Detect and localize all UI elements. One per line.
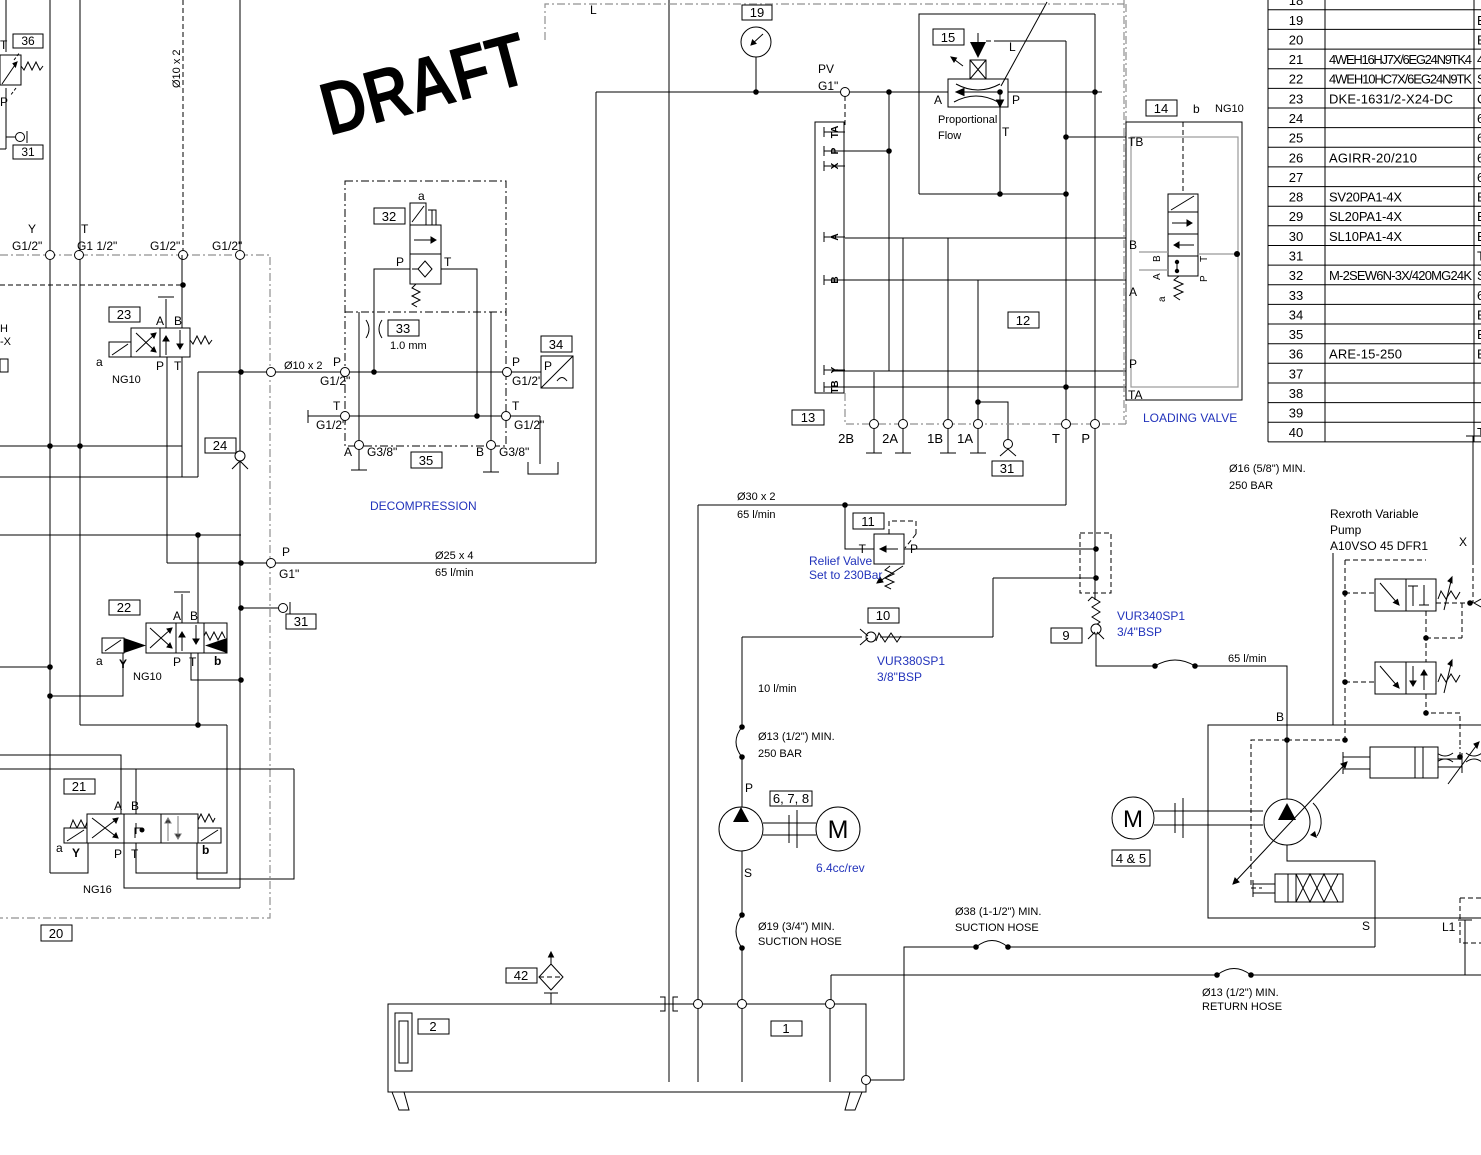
svg-text:34: 34	[549, 337, 563, 352]
label box 4,5	[1112, 850, 1150, 866]
svg-text:M: M	[1123, 806, 1143, 833]
label box 12	[1008, 312, 1039, 328]
svg-text:1A: 1A	[957, 431, 973, 446]
label box 13	[792, 410, 824, 425]
svg-text:31: 31	[21, 145, 35, 159]
svg-text:Rexroth Variable: Rexroth Variable	[1330, 507, 1419, 521]
svg-text:SV20PA1-4X: SV20PA1-4X	[1329, 190, 1402, 205]
svg-text:E: E	[1477, 190, 1481, 205]
svg-text:Ø38 (1-1/2") MIN.: Ø38 (1-1/2") MIN.	[955, 906, 1041, 918]
wire riser x=596	[595, 92, 597, 563]
port P right	[503, 368, 512, 377]
wire B column	[490, 312, 492, 472]
tank symbol decompression	[528, 462, 558, 474]
wire y=578 to P col	[993, 577, 1096, 579]
svg-text:a: a	[96, 654, 103, 668]
labels Rexroth	[1330, 507, 1467, 553]
svg-text:13: 13	[801, 410, 815, 425]
svg-text:E: E	[1477, 32, 1481, 47]
svg-text:250 BAR: 250 BAR	[1229, 480, 1273, 492]
wire y=725 collector	[80, 724, 227, 726]
svg-text:6: 6	[1477, 288, 1481, 303]
svg-text:NG10: NG10	[112, 374, 141, 386]
svg-text:B: B	[1276, 710, 1284, 724]
svg-text:19: 19	[750, 5, 764, 20]
svg-text:T: T	[444, 255, 452, 269]
svg-text:14: 14	[1154, 101, 1168, 116]
svg-text:SUCTION HOSE: SUCTION HOSE	[758, 936, 842, 948]
wire P riser x=889	[888, 92, 890, 371]
motor M 4,5	[1112, 797, 1154, 839]
check valve 31 (mid)	[241, 602, 290, 614]
pilot b dashed	[1182, 122, 1184, 194]
svg-text:42: 42	[514, 968, 528, 983]
valve 23 NG10	[96, 297, 212, 386]
svg-text:Ø13 (1/2") MIN.: Ø13 (1/2") MIN.	[758, 731, 835, 743]
svg-text:B: B	[830, 276, 841, 283]
loading valve box 14	[1126, 122, 1242, 400]
label box 15	[933, 29, 964, 45]
svg-text:TA: TA	[830, 126, 841, 139]
port B	[487, 441, 496, 450]
svg-text:3/4"BSP: 3/4"BSP	[1117, 625, 1162, 639]
svg-text:NG16: NG16	[83, 884, 112, 896]
wire TB line y=387	[832, 386, 1126, 388]
relief valve 36	[0, 38, 43, 109]
svg-text:6: 6	[1477, 111, 1481, 126]
wire A valve21 y=755	[0, 755, 121, 814]
svg-text:G1 1/2": G1 1/2"	[77, 239, 117, 253]
svg-text:Y: Y	[28, 222, 36, 236]
svg-text:B: B	[1152, 255, 1163, 262]
svg-text:2A: 2A	[882, 431, 898, 446]
svg-text:M-2SEW6N-3X/420MG24K: M-2SEW6N-3X/420MG24K	[1329, 268, 1472, 283]
DFR valve lower	[1375, 660, 1460, 694]
svg-text:A: A	[114, 799, 122, 813]
port G1/2 a	[179, 251, 188, 260]
proportional flow valve 15	[934, 2, 1047, 142]
svg-text:20: 20	[49, 926, 63, 941]
wire T branch to relief	[845, 505, 874, 549]
svg-text:A: A	[830, 233, 841, 240]
svg-text:G1/2": G1/2"	[320, 374, 350, 388]
svg-text:39: 39	[1289, 406, 1303, 421]
label VUR380	[877, 654, 945, 684]
svg-text:30: 30	[1289, 229, 1303, 244]
svg-text:L: L	[590, 3, 597, 17]
svg-text:L1: L1	[1442, 920, 1456, 934]
svg-text:NG10: NG10	[133, 671, 162, 683]
svg-text:G1/2": G1/2"	[316, 418, 346, 432]
svg-text:6: 6	[1477, 131, 1481, 146]
labels A B	[344, 445, 529, 459]
loading valve cartridge	[1152, 194, 1210, 302]
level gauge 2	[395, 1013, 412, 1071]
label box 31 mid	[286, 614, 316, 629]
check valve 10	[860, 629, 901, 645]
svg-text:LOADING VALVE: LOADING VALVE	[1143, 411, 1237, 425]
svg-text:G3/8": G3/8"	[367, 445, 397, 459]
svg-text:T: T	[1199, 256, 1210, 262]
svg-text:P: P	[512, 355, 520, 369]
wire riser x=993	[992, 578, 994, 637]
labels b NG10	[1193, 102, 1244, 116]
svg-text:4WEH10HC7X/6EG24N9TK: 4WEH10HC7X/6EG24N9TK	[1329, 72, 1472, 87]
loading valve inner plate	[1131, 137, 1238, 387]
svg-text:4 & 5: 4 & 5	[1116, 851, 1146, 866]
check valve 24	[232, 451, 248, 469]
svg-text:31: 31	[1000, 461, 1014, 476]
svg-text:2: 2	[429, 1019, 436, 1034]
svg-text:Relief Valve: Relief Valve	[809, 554, 872, 568]
svg-text:15: 15	[941, 30, 955, 45]
svg-text:38: 38	[1289, 386, 1303, 401]
svg-text:9: 9	[1062, 628, 1069, 643]
wire to Rexroth B	[1195, 666, 1287, 799]
svg-text:31: 31	[1289, 249, 1303, 264]
svg-text:34: 34	[1289, 307, 1303, 322]
port labels top	[12, 222, 242, 253]
label box 31	[13, 145, 43, 159]
stroking cylinder	[1343, 742, 1479, 784]
label box 10	[868, 608, 899, 623]
svg-text:3/8"BSP: 3/8"BSP	[877, 670, 922, 684]
svg-text:E: E	[1477, 347, 1481, 362]
svg-text:AGIRR-20/210: AGIRR-20/210	[1329, 150, 1417, 165]
svg-text:X: X	[1459, 535, 1467, 549]
flow sensing arcs	[1437, 747, 1481, 762]
label box 34	[541, 336, 572, 352]
svg-text:24: 24	[213, 438, 227, 453]
svg-text:TB: TB	[1128, 135, 1143, 149]
svg-text:T: T	[131, 847, 139, 861]
labels dia25x4	[435, 550, 474, 579]
wire T column x=1066	[1065, 41, 1067, 505]
svg-text:VUR380SP1: VUR380SP1	[877, 654, 945, 668]
wire left edge column	[5, 0, 7, 52]
label box 32	[374, 208, 405, 224]
wire tank line x=698	[697, 505, 699, 1082]
hose dia13	[736, 727, 742, 757]
svg-text:T: T	[1477, 249, 1481, 264]
labels relief valve	[809, 542, 918, 582]
svg-text:37: 37	[1289, 366, 1303, 381]
svg-text:L: L	[1009, 40, 1016, 54]
svg-text:P: P	[282, 545, 290, 559]
labels dia38	[955, 906, 1041, 934]
svg-text:32: 32	[1289, 268, 1303, 283]
label box 1	[771, 1021, 802, 1036]
wire 1B column	[947, 238, 949, 453]
loading valve left border gray	[1123, 0, 1125, 420]
svg-text:29: 29	[1289, 209, 1303, 224]
svg-text:21: 21	[1289, 52, 1303, 67]
port A	[355, 441, 364, 450]
valve 21 NG16	[56, 799, 221, 896]
labels decompression ports	[316, 355, 544, 432]
svg-text:33: 33	[1289, 288, 1303, 303]
svg-text:E: E	[1477, 209, 1481, 224]
svg-text:25: 25	[1289, 131, 1303, 146]
port G1/2 b	[236, 251, 245, 260]
svg-text:Y: Y	[830, 366, 841, 373]
svg-text:a: a	[56, 841, 63, 855]
svg-text:6.4cc/rev: 6.4cc/rev	[816, 861, 865, 875]
wire L line	[994, 40, 1066, 42]
wire drain valve21 a	[50, 843, 88, 873]
wire 2B column	[873, 372, 875, 453]
label box 36	[13, 34, 43, 48]
svg-text:36: 36	[1289, 347, 1303, 362]
svg-text:27: 27	[1289, 170, 1303, 185]
wire Y valve22 y=696	[50, 653, 123, 696]
svg-text:A: A	[173, 609, 181, 623]
DRAFT watermark	[311, 16, 536, 151]
svg-text:a: a	[96, 355, 103, 369]
check valve 9	[1088, 597, 1104, 639]
svg-text:b: b	[214, 654, 221, 668]
counter cylinder with spring	[1253, 874, 1343, 902]
svg-text:21: 21	[72, 779, 86, 794]
svg-text:P: P	[173, 655, 181, 669]
svg-text:Ø30 x 2: Ø30 x 2	[737, 491, 776, 503]
wire 1A column	[977, 280, 979, 453]
wire Y/P line y=371	[832, 370, 1126, 372]
relief valve 11	[874, 521, 916, 589]
svg-text:6, 7, 8: 6, 7, 8	[773, 791, 809, 806]
svg-text:B: B	[1129, 238, 1137, 252]
wire P G1/2 line y=372	[198, 371, 543, 373]
svg-text:18: 18	[1289, 0, 1303, 8]
svg-text:Ø16 (5/8") MIN.: Ø16 (5/8") MIN.	[1229, 463, 1306, 475]
svg-text:C: C	[1477, 91, 1481, 106]
svg-text:1.0 mm: 1.0 mm	[390, 340, 427, 352]
pilot line dashed riser	[182, 0, 184, 255]
svg-text:31: 31	[294, 614, 308, 629]
bottom port labels	[838, 431, 1090, 446]
svg-text:20: 20	[1289, 32, 1303, 47]
case drain	[1287, 845, 1375, 918]
svg-text:Y: Y	[119, 657, 127, 671]
orifice 33	[366, 320, 382, 338]
svg-text:Ø10 x 2: Ø10 x 2	[284, 360, 323, 372]
coupling shaft	[763, 810, 816, 848]
wire Y column x=50	[49, 0, 51, 873]
wire P valve32	[374, 269, 410, 372]
shaft motor to pump	[1154, 798, 1263, 838]
labels PV	[818, 62, 838, 93]
wire pump P column	[741, 637, 743, 727]
label box 24	[205, 438, 236, 453]
LS dashed lines	[1251, 590, 1473, 888]
pilot dashed wire y=285	[0, 284, 183, 286]
svg-text:NG10: NG10	[1215, 103, 1244, 115]
svg-text:P: P	[156, 359, 164, 373]
svg-text:A: A	[344, 445, 352, 459]
svg-text:H: H	[0, 323, 8, 335]
wire x=198 riser to P-line	[197, 372, 199, 477]
svg-text:32: 32	[382, 209, 396, 224]
svg-text:6: 6	[1477, 170, 1481, 185]
labels dia19	[758, 921, 842, 948]
wire P stub to riser	[845, 150, 889, 152]
decompression block border	[345, 181, 506, 446]
svg-text:DKE-1631/2-X24-DC: DKE-1631/2-X24-DC	[1329, 91, 1453, 106]
svg-text:G3/8": G3/8"	[499, 445, 529, 459]
label box 23	[109, 307, 140, 322]
labels dia16	[1229, 463, 1306, 492]
wire block inlet	[1332, 553, 1334, 725]
port ticks TB TA	[1125, 132, 1127, 392]
labels P G1	[279, 545, 299, 581]
svg-text:Ø13 (1/2") MIN.: Ø13 (1/2") MIN.	[1202, 987, 1279, 999]
manifold box 20 border	[0, 255, 270, 918]
svg-text:VUR340SP1: VUR340SP1	[1117, 609, 1185, 623]
wire TB to loading valve	[1066, 136, 1126, 138]
wire inner box around valve 15	[919, 14, 1095, 194]
svg-text:Set to 230Bar: Set to 230Bar	[809, 568, 882, 582]
svg-text:G1": G1"	[818, 79, 838, 93]
svg-text:T: T	[512, 399, 520, 413]
svg-text:Pump: Pump	[1330, 523, 1362, 537]
wire P valve23	[166, 357, 168, 563]
wire P col to B line	[1096, 634, 1155, 666]
hose dia19	[736, 915, 742, 948]
svg-text:B: B	[131, 799, 139, 813]
wire P valve21	[124, 843, 240, 888]
svg-text:S: S	[1477, 72, 1481, 87]
wire T line y=416	[308, 415, 540, 417]
svg-text:23: 23	[117, 307, 131, 322]
svg-text:X: X	[830, 162, 841, 169]
label box 14	[1146, 100, 1177, 116]
pilot dashed network	[1345, 560, 1481, 748]
wire y=667 stub	[0, 666, 50, 668]
wire S port	[1374, 918, 1376, 947]
wire B valve21 y=769	[0, 768, 294, 770]
bottom ports	[870, 420, 879, 429]
pressure switch 34	[511, 356, 573, 388]
port caps	[866, 452, 986, 454]
DFR valve upper	[1375, 577, 1460, 611]
svg-text:35: 35	[419, 453, 433, 468]
svg-text:ARE-15-250: ARE-15-250	[1329, 347, 1402, 362]
wire X pilot	[1466, 436, 1480, 560]
svg-text:Ø25 x 4: Ø25 x 4	[435, 550, 474, 562]
svg-text:T: T	[333, 399, 341, 413]
svg-text:T: T	[1002, 125, 1010, 139]
block 13 dash-dot right	[1125, 4, 1127, 424]
svg-text:T: T	[0, 38, 8, 52]
svg-text:SL10PA1-4X: SL10PA1-4X	[1329, 229, 1402, 244]
wire T line y=505	[698, 504, 1066, 506]
wire b valve21 loop	[197, 769, 294, 879]
wire T valve22	[191, 653, 241, 680]
svg-text:10: 10	[876, 608, 890, 623]
svg-text:Y: Y	[72, 846, 80, 860]
svg-text:P: P	[396, 255, 404, 269]
svg-text:a: a	[418, 189, 425, 203]
wire P column x=1095	[1094, 14, 1096, 600]
wire T valve32	[441, 269, 477, 416]
svg-text:T: T	[1477, 425, 1481, 440]
svg-text:T: T	[81, 222, 89, 236]
svg-text:1: 1	[782, 1021, 789, 1036]
wire main P line y=92	[596, 91, 1102, 93]
svg-text:T: T	[189, 655, 197, 669]
svg-text:M: M	[828, 816, 849, 844]
labels dia30x2	[737, 491, 776, 521]
svg-text:P: P	[333, 355, 341, 369]
block 13 dash-dot bottom	[845, 393, 1126, 424]
svg-text:a: a	[1157, 296, 1168, 302]
svg-text:RETURN HOSE: RETURN HOSE	[1202, 1001, 1282, 1013]
label box 9	[1051, 628, 1082, 643]
wire to tank drop	[539, 416, 541, 464]
svg-text:Proportional: Proportional	[938, 114, 997, 126]
port P G1/2	[267, 368, 276, 377]
Rexroth pump block box	[1208, 725, 1481, 918]
wire x=198 lower	[197, 535, 199, 725]
wire y=477	[0, 476, 198, 478]
svg-text:35: 35	[1289, 327, 1303, 342]
tank top ports	[694, 1000, 703, 1009]
svg-text:24: 24	[1289, 111, 1303, 126]
label box 22	[109, 600, 140, 615]
wire relief P to column	[904, 548, 1096, 550]
svg-text:P: P	[1199, 275, 1210, 282]
svg-text:B: B	[476, 445, 484, 459]
svg-text:11: 11	[861, 514, 875, 529]
svg-text:T: T	[1052, 431, 1060, 446]
tank internal pipes	[669, 1004, 830, 1082]
port Y	[46, 251, 55, 260]
dashed test box	[1080, 533, 1111, 593]
wire G1/2 column x=240	[239, 0, 241, 888]
svg-text:G1": G1"	[279, 567, 299, 581]
svg-text:Ø10 x 2: Ø10 x 2	[171, 49, 183, 88]
labels P G1/2	[284, 360, 323, 372]
svg-text:65 l/min: 65 l/min	[737, 509, 776, 521]
svg-text:S: S	[1477, 268, 1481, 283]
valve 32	[396, 189, 452, 307]
hose 65lmin	[1155, 660, 1195, 666]
wire x=182 through valve 23	[181, 255, 183, 477]
wall pass symbol	[660, 997, 678, 1011]
svg-text:S: S	[1362, 919, 1370, 933]
svg-text:A: A	[1152, 273, 1163, 280]
parts table	[1268, 0, 1481, 442]
L1 port	[1442, 898, 1481, 975]
wire B line y=280	[845, 268, 1139, 280]
svg-text:G1/2": G1/2"	[12, 239, 42, 253]
svg-text:SUCTION HOSE: SUCTION HOSE	[955, 922, 1039, 934]
variable pump circle	[1264, 799, 1321, 845]
label box 2	[418, 1019, 449, 1034]
svg-text:-X: -X	[0, 336, 12, 348]
svg-text:P: P	[1012, 93, 1020, 107]
svg-text:P: P	[0, 95, 8, 109]
svg-text:A: A	[1129, 285, 1137, 299]
svg-text:PV: PV	[818, 62, 834, 76]
svg-text:DECOMPRESSION: DECOMPRESSION	[370, 499, 477, 513]
svg-text:b: b	[202, 843, 209, 857]
valve 22 NG10	[96, 592, 227, 683]
svg-text:250 BAR: 250 BAR	[758, 748, 802, 760]
svg-text:G1/2": G1/2"	[512, 374, 542, 388]
wire valve stubs gray	[1139, 252, 1237, 270]
svg-text:19: 19	[1289, 13, 1303, 28]
